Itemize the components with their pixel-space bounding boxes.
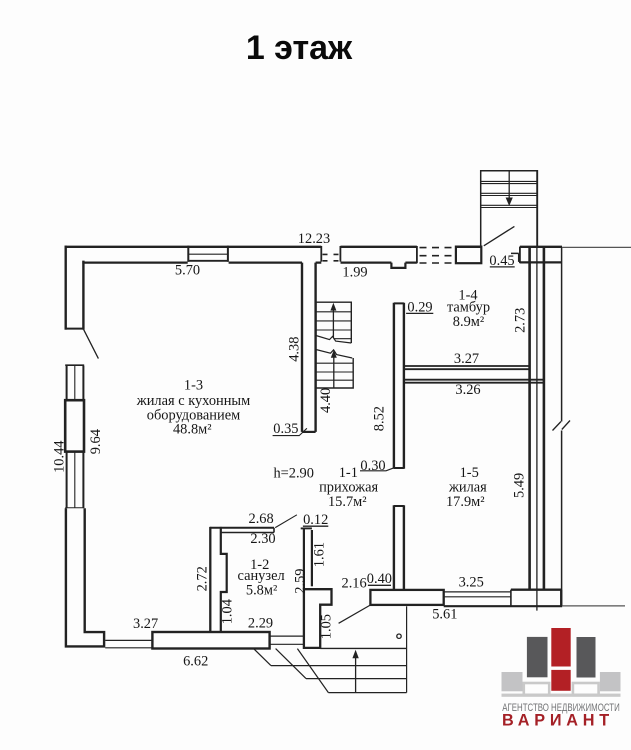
svg-text:0.45: 0.45	[489, 253, 514, 269]
wall bottom hall block	[370, 590, 443, 605]
svg-text:4.40: 4.40	[318, 388, 334, 413]
svg-text:48.8м²: 48.8м²	[173, 421, 212, 437]
logo base bar	[502, 694, 621, 697]
chimney block	[304, 589, 332, 648]
underline 0.29	[406, 312, 433, 314]
svg-text:17.9м²: 17.9м²	[446, 494, 485, 510]
svg-text:5.70: 5.70	[175, 263, 200, 279]
underline 0.40	[368, 584, 391, 586]
point mark	[397, 634, 401, 638]
wall bottom right top line	[511, 589, 562, 591]
svg-text:0.35: 0.35	[273, 421, 298, 437]
wall right inner face C	[543, 248, 546, 590]
door swing hall	[339, 605, 371, 623]
svg-text:1 этаж: 1 этаж	[246, 29, 353, 67]
svg-text:3.27: 3.27	[133, 616, 158, 632]
wall left bottom corner block	[66, 508, 104, 646]
porch step diagonals	[254, 649, 329, 693]
outside stair box	[481, 171, 538, 247]
svg-text:1-5: 1-5	[460, 465, 479, 481]
svg-text:0.29: 0.29	[407, 299, 432, 315]
svg-text:3.27: 3.27	[454, 351, 479, 367]
svg-text:2.16: 2.16	[342, 576, 367, 592]
wall pier left	[65, 400, 84, 451]
svg-text:2.59: 2.59	[292, 569, 308, 594]
leader 2.68	[275, 515, 297, 528]
svg-text:9.64: 9.64	[88, 429, 104, 454]
svg-text:0.12: 0.12	[303, 512, 328, 528]
door jamb mark	[511, 253, 519, 262]
logo building dark-right	[577, 637, 596, 678]
window bottom-left	[105, 640, 152, 647]
dashed opening right	[420, 248, 452, 263]
wall room5 top	[404, 380, 544, 383]
logo building light-left	[502, 672, 523, 691]
svg-text:5.49: 5.49	[511, 473, 527, 498]
entrance door swing	[484, 226, 515, 245]
dashed opening ticks left	[321, 246, 340, 262]
underline 0.45	[490, 266, 515, 268]
svg-text:12.23: 12.23	[298, 231, 330, 247]
wall top inner line	[82, 262, 562, 268]
svg-text:2.73: 2.73	[512, 308, 528, 333]
stair upper arrow	[332, 309, 334, 338]
logo building dark-left	[527, 637, 548, 677]
svg-text:1-3: 1-3	[184, 378, 203, 394]
wall right inner face A	[528, 248, 531, 590]
svg-text:4.38: 4.38	[286, 337, 302, 362]
wall left upper bottom cap	[65, 328, 84, 330]
window left wall lower	[67, 452, 84, 509]
wall bottom right bottom line	[444, 605, 563, 607]
door swing left wall	[84, 329, 99, 358]
logo building red low	[551, 670, 570, 691]
svg-text:8.52: 8.52	[372, 406, 388, 431]
window bottom room5	[444, 592, 511, 597]
svg-text:5.8м²: 5.8м²	[246, 582, 277, 598]
logo building light-right	[600, 672, 621, 691]
stair break lines	[316, 336, 351, 344]
wall left outer upper	[64, 246, 66, 330]
svg-text:3.26: 3.26	[455, 382, 480, 398]
wall edge right of entrance	[519, 247, 521, 264]
wall bathroom right	[303, 528, 305, 589]
window left wall upper	[67, 366, 84, 401]
break symbol right wall	[553, 421, 571, 431]
wall left inner upper	[82, 261, 84, 330]
svg-text:10.44: 10.44	[52, 441, 68, 473]
window end bar	[510, 590, 512, 607]
stair lower arrow	[333, 356, 335, 388]
svg-text:ВАРИАНТ: ВАРИАНТ	[502, 711, 614, 730]
svg-text:5.61: 5.61	[432, 607, 457, 623]
wall tambour bottom	[404, 366, 530, 369]
stair upper flight	[316, 302, 351, 343]
wall bathroom top partition	[210, 527, 274, 529]
wall top outer line	[65, 246, 563, 248]
svg-text:h=2.90: h=2.90	[273, 465, 314, 481]
wall bottom long block	[152, 632, 269, 649]
svg-text:1-1: 1-1	[339, 465, 358, 481]
logo bridge left	[524, 683, 549, 695]
svg-text:3.25: 3.25	[459, 574, 484, 590]
svg-text:0.30: 0.30	[360, 458, 385, 474]
wall pier at entrance	[456, 247, 481, 264]
svg-text:15.7м²: 15.7м²	[328, 494, 367, 510]
wall right outer line D	[561, 248, 563, 606]
outside stair steps	[481, 181, 538, 207]
thin extension bottom right	[562, 605, 625, 607]
leader 0.35	[273, 428, 307, 435]
leader 0.30	[360, 468, 394, 471]
window top wall	[188, 246, 228, 262]
porch steps	[271, 666, 407, 693]
svg-text:тамбур: тамбур	[447, 299, 490, 315]
porch arrow	[355, 654, 357, 693]
wall W2 lower	[394, 505, 404, 590]
wall right thin line B	[536, 171, 538, 611]
stair lower flight	[316, 350, 353, 389]
step top edge line	[320, 647, 406, 649]
outside stair arrow	[508, 171, 510, 200]
wall top-right thin extension line	[562, 246, 631, 248]
svg-text:2.30: 2.30	[250, 531, 275, 547]
svg-text:1.04: 1.04	[220, 599, 236, 624]
svg-text:2.72: 2.72	[194, 566, 210, 591]
svg-text:6.62: 6.62	[183, 653, 208, 669]
dashed opening left	[323, 254, 339, 260]
svg-text:8.9м²: 8.9м²	[453, 314, 484, 330]
underline 0.12	[303, 525, 328, 527]
svg-text:2.29: 2.29	[248, 616, 273, 632]
svg-text:2.68: 2.68	[249, 511, 274, 527]
svg-text:1.61: 1.61	[311, 542, 327, 567]
porch right edge	[406, 606, 408, 692]
logo building red tall	[551, 628, 570, 667]
wall W1 hall-living	[302, 263, 316, 432]
svg-text:1.99: 1.99	[342, 265, 367, 281]
svg-text:1.05: 1.05	[319, 614, 335, 639]
dashed opening ticks right	[417, 246, 456, 263]
wall bathroom left	[209, 527, 211, 632]
window bottom-right	[270, 636, 304, 644]
svg-text:0.40: 0.40	[367, 571, 392, 587]
wall W2 upper	[394, 303, 404, 469]
wall bottom right edge	[560, 590, 562, 607]
logo bridge right	[573, 683, 599, 695]
